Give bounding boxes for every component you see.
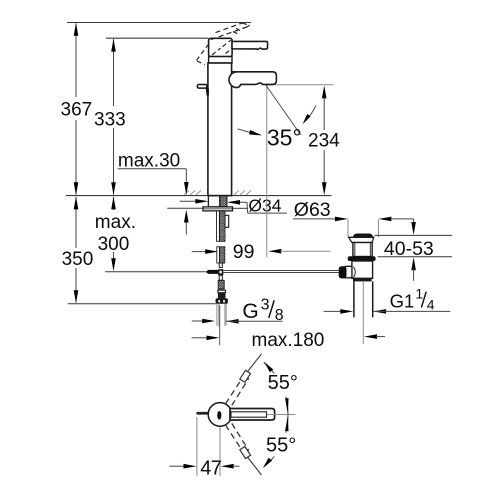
Ø34 left arrow (180, 200, 197, 202)
max.180 dimension arrows (192, 337, 208, 339)
faucet body column (208, 63, 232, 196)
drain upper body (353, 243, 372, 257)
Ø63 extension lines (347, 219, 349, 237)
top view spout outer (230, 409, 275, 421)
svg-text:8: 8 (275, 307, 284, 324)
lever swung down 55° dashed lines (226, 425, 245, 455)
40-53 arrows (413, 219, 415, 224)
flexible supply hoses (216, 304, 218, 326)
dimension 367 (overall height) vertical line (75, 24, 77, 98)
svg-text:300: 300 (98, 234, 130, 255)
pop-up rod knob behind body (197, 85, 206, 89)
G3/8 connector nut (216, 298, 228, 303)
svg-text:4: 4 (427, 297, 435, 313)
svg-text:Ø34: Ø34 (248, 196, 281, 216)
deck surface hatch ticks (184, 190, 189, 195)
drain locknut (348, 256, 376, 261)
svg-text:55°: 55° (268, 372, 298, 394)
lever raised 35° dashed outline (216, 23, 243, 33)
svg-text:99: 99 (233, 241, 255, 263)
svg-text:40-53: 40-53 (384, 238, 434, 260)
top view spout inner (231, 412, 267, 417)
dimension 99 right arrow (268, 249, 281, 254)
40-53 top reference line (375, 234, 453, 236)
35° stream line (266, 85, 301, 135)
svg-text:350: 350 (62, 249, 94, 270)
47 dimension arrows (169, 465, 185, 467)
dimension max.300 (depth to pop-up rod) vertical line (113, 197, 115, 210)
faucet axis line below hoses (219, 305, 221, 345)
reference line: top of raised lever (367 ref) (67, 22, 251, 24)
max.30 leader underline (118, 168, 187, 170)
horizontal pop-up rod to drain (223, 270, 340, 272)
55° arc upper (264, 362, 275, 373)
top view pop-up knob tab (196, 412, 208, 415)
tailpipe (353, 281, 355, 317)
max.30 lower arrow (185, 221, 187, 234)
dimension 333 (height to lever) vertical line (113, 39, 115, 106)
350 bottom reference line (68, 303, 216, 305)
tailpipe axis line (362, 281, 364, 344)
svg-text:234: 234 (308, 131, 340, 152)
svg-text:G: G (242, 300, 258, 323)
svg-text:max.180: max.180 (252, 330, 325, 351)
G1 1/4 label underline (373, 310, 450, 312)
dimension 350 (depth to hose end) vertical line (75, 197, 77, 248)
max.30 upper arrow (185, 169, 187, 183)
max.300 bottom reference line (pop-up rod) (105, 271, 205, 273)
threaded shank in deck hole (208, 196, 219, 207)
svg-text:3: 3 (261, 297, 270, 314)
40-53 bottom reference line (378, 256, 452, 258)
G1 1/4 dimension arrows (324, 310, 342, 312)
lever line continuation (up) (248, 354, 262, 372)
lever line continuation (down) (248, 458, 262, 476)
drain plug flange (349, 237, 374, 242)
lever tip collar (up position) (240, 370, 251, 382)
svg-text:367: 367 (61, 99, 93, 120)
cartridge collar (209, 57, 232, 63)
drain lower body (352, 261, 373, 278)
dimension 99 left arrow (192, 251, 206, 253)
deck underside line (max.30 ref) (167, 207, 203, 209)
threaded rod lower segment (217, 247, 220, 263)
G3/8 dimension arrows (192, 320, 203, 322)
G3/8 connector body (218, 290, 226, 293)
lever swung up 55° dashed lines (226, 374, 245, 404)
reference line: top of lever at rest (333 ref) (106, 37, 209, 39)
pop-up lever ball joint (339, 266, 347, 278)
rod neck below pivot (219, 275, 222, 280)
hub tilted dashed outline (197, 43, 210, 60)
drain plug knob (353, 234, 373, 238)
top view faucet body circle (208, 403, 232, 427)
35° leader arrow (238, 129, 251, 133)
35° angle arc with arrow (305, 105, 316, 121)
Ø34 right leader with arrow (227, 200, 240, 205)
pop-up lever tee (345, 266, 352, 278)
ball socket arc (353, 267, 355, 278)
svg-text:333: 333 (94, 109, 126, 130)
faucet lever hub (209, 38, 233, 56)
svg-text:55°: 55° (266, 434, 296, 456)
svg-text:1: 1 (415, 285, 423, 301)
55° arc lower (286, 415, 288, 433)
dimension 234 vertical line (322, 85, 327, 98)
Ø63 dimension line (293, 218, 336, 220)
rod neck above pivot (219, 263, 222, 267)
spout axis line (267, 414, 296, 416)
aerator height reference line (266, 84, 334, 86)
top view handle dot (217, 411, 221, 420)
svg-text:Ø63: Ø63 (294, 199, 331, 221)
spout (229, 72, 276, 88)
threaded rod upper segment (217, 211, 220, 241)
svg-text:47: 47 (200, 457, 222, 479)
svg-text:max.: max. (95, 212, 136, 233)
faucet lever arm (232, 41, 268, 49)
47 extension lines (196, 417, 198, 476)
vertical reference line from aerator (266, 85, 268, 258)
mounting washer (203, 207, 233, 211)
svg-text:35°: 35° (267, 124, 302, 150)
svg-text:max.30: max.30 (118, 150, 180, 171)
threaded hose connector segment (218, 280, 224, 289)
mounting clip on rod (225, 215, 229, 227)
svg-text:G1: G1 (390, 290, 415, 311)
mounting deck surface line (66, 195, 208, 197)
pop-up pivot coupler (206, 270, 219, 274)
lever tip collar (down position) (240, 447, 251, 459)
G3/8 label underline (226, 320, 283, 322)
